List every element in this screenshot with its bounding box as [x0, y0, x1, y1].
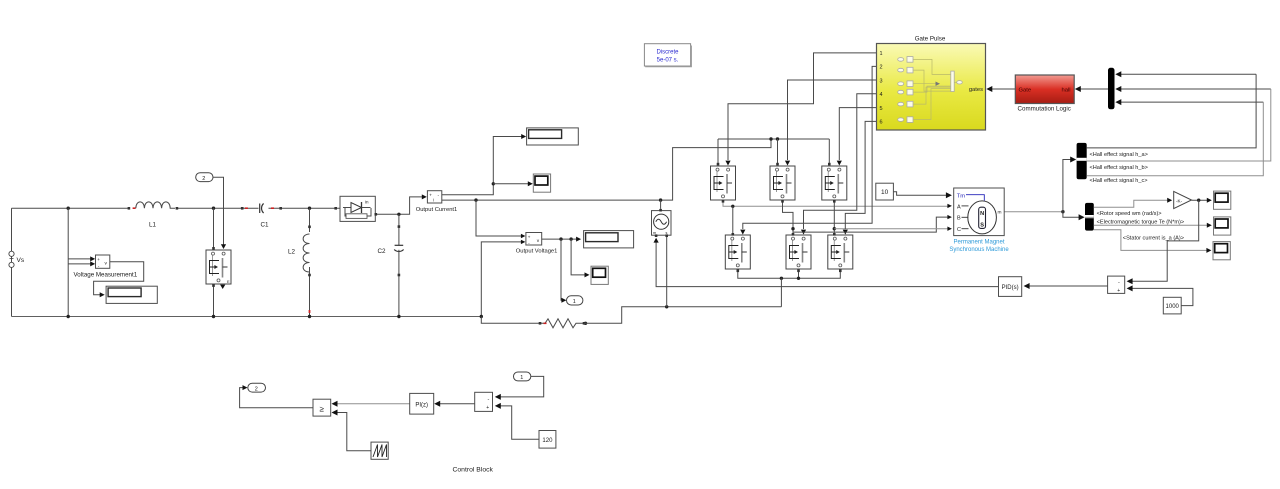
svg-text:C: C — [957, 227, 961, 233]
svg-text:s: s — [666, 231, 668, 235]
svg-text:C2: C2 — [378, 248, 387, 255]
svg-text:10: 10 — [881, 189, 889, 196]
svg-text:B: B — [957, 216, 961, 222]
svg-text:1: 1 — [573, 299, 576, 305]
svg-text:m: m — [998, 211, 1002, 216]
svg-text:C1: C1 — [261, 222, 270, 229]
svg-text:<Hall effect signal h_c>: <Hall effect signal h_c> — [1090, 178, 1148, 184]
svg-text:≥: ≥ — [320, 405, 325, 414]
svg-text:Vs: Vs — [17, 257, 25, 264]
svg-text:L1: L1 — [149, 222, 157, 229]
svg-text:1: 1 — [520, 375, 523, 381]
svg-text:<Hall effect signal h_a>: <Hall effect signal h_a> — [1090, 152, 1148, 158]
svg-text:Voltage Measurement1: Voltage Measurement1 — [74, 271, 138, 278]
svg-text:i: i — [433, 198, 434, 203]
svg-text:-K-: -K- — [1176, 198, 1183, 203]
svg-text:L2: L2 — [288, 249, 296, 256]
svg-text:E: E — [227, 279, 230, 284]
svg-text:Discrete: Discrete — [656, 50, 679, 56]
svg-text:2: 2 — [255, 386, 258, 392]
svg-text:Output Voltage1: Output Voltage1 — [516, 248, 558, 254]
svg-text:120: 120 — [542, 438, 553, 444]
svg-text:5e-07 s.: 5e-07 s. — [657, 58, 679, 64]
svg-text:1000: 1000 — [1166, 304, 1180, 310]
svg-text:A: A — [957, 204, 961, 210]
svg-text:Gate Pulse: Gate Pulse — [915, 36, 946, 43]
svg-text:Permanent Magnet: Permanent Magnet — [953, 240, 1004, 246]
svg-text:Output Current1: Output Current1 — [416, 207, 458, 213]
svg-text:gates: gates — [969, 87, 983, 93]
svg-text:6: 6 — [880, 120, 883, 126]
svg-text:S: S — [980, 222, 984, 228]
svg-text:Gate: Gate — [1019, 87, 1032, 93]
svg-text:5: 5 — [880, 106, 883, 112]
svg-text:<Rotor speed wm (rad/s)>: <Rotor speed wm (rad/s)> — [1097, 211, 1162, 217]
svg-text:m: m — [653, 231, 656, 235]
svg-text:Control Block: Control Block — [452, 466, 493, 473]
svg-text:Tm: Tm — [957, 194, 966, 200]
svg-text:2: 2 — [202, 176, 205, 182]
svg-text:+: + — [528, 234, 531, 239]
svg-text:+: + — [1117, 288, 1120, 294]
svg-text:in: in — [365, 200, 369, 205]
svg-text:4: 4 — [880, 92, 883, 98]
svg-text:PI(z): PI(z) — [415, 403, 428, 409]
svg-text:+: + — [486, 405, 489, 411]
svg-text:1: 1 — [880, 51, 883, 57]
svg-text:-: - — [1118, 280, 1120, 286]
svg-text:hall: hall — [1061, 87, 1070, 93]
svg-text:3: 3 — [880, 78, 883, 84]
svg-text:+: + — [97, 257, 100, 262]
svg-text:2: 2 — [880, 65, 883, 71]
svg-text:<Hall effect signal h_b>: <Hall effect signal h_b> — [1090, 165, 1148, 171]
svg-text:Commutation Logic: Commutation Logic — [1018, 106, 1071, 113]
svg-text:-: - — [488, 396, 490, 402]
svg-text:<Electromagnetic torque Te (N*: <Electromagnetic torque Te (N*m)> — [1097, 219, 1185, 225]
svg-text:PID(s): PID(s) — [1002, 285, 1019, 291]
svg-text:Synchronous Machine: Synchronous Machine — [949, 247, 1009, 253]
svg-text:+: + — [429, 193, 432, 198]
svg-text:N: N — [980, 211, 984, 217]
